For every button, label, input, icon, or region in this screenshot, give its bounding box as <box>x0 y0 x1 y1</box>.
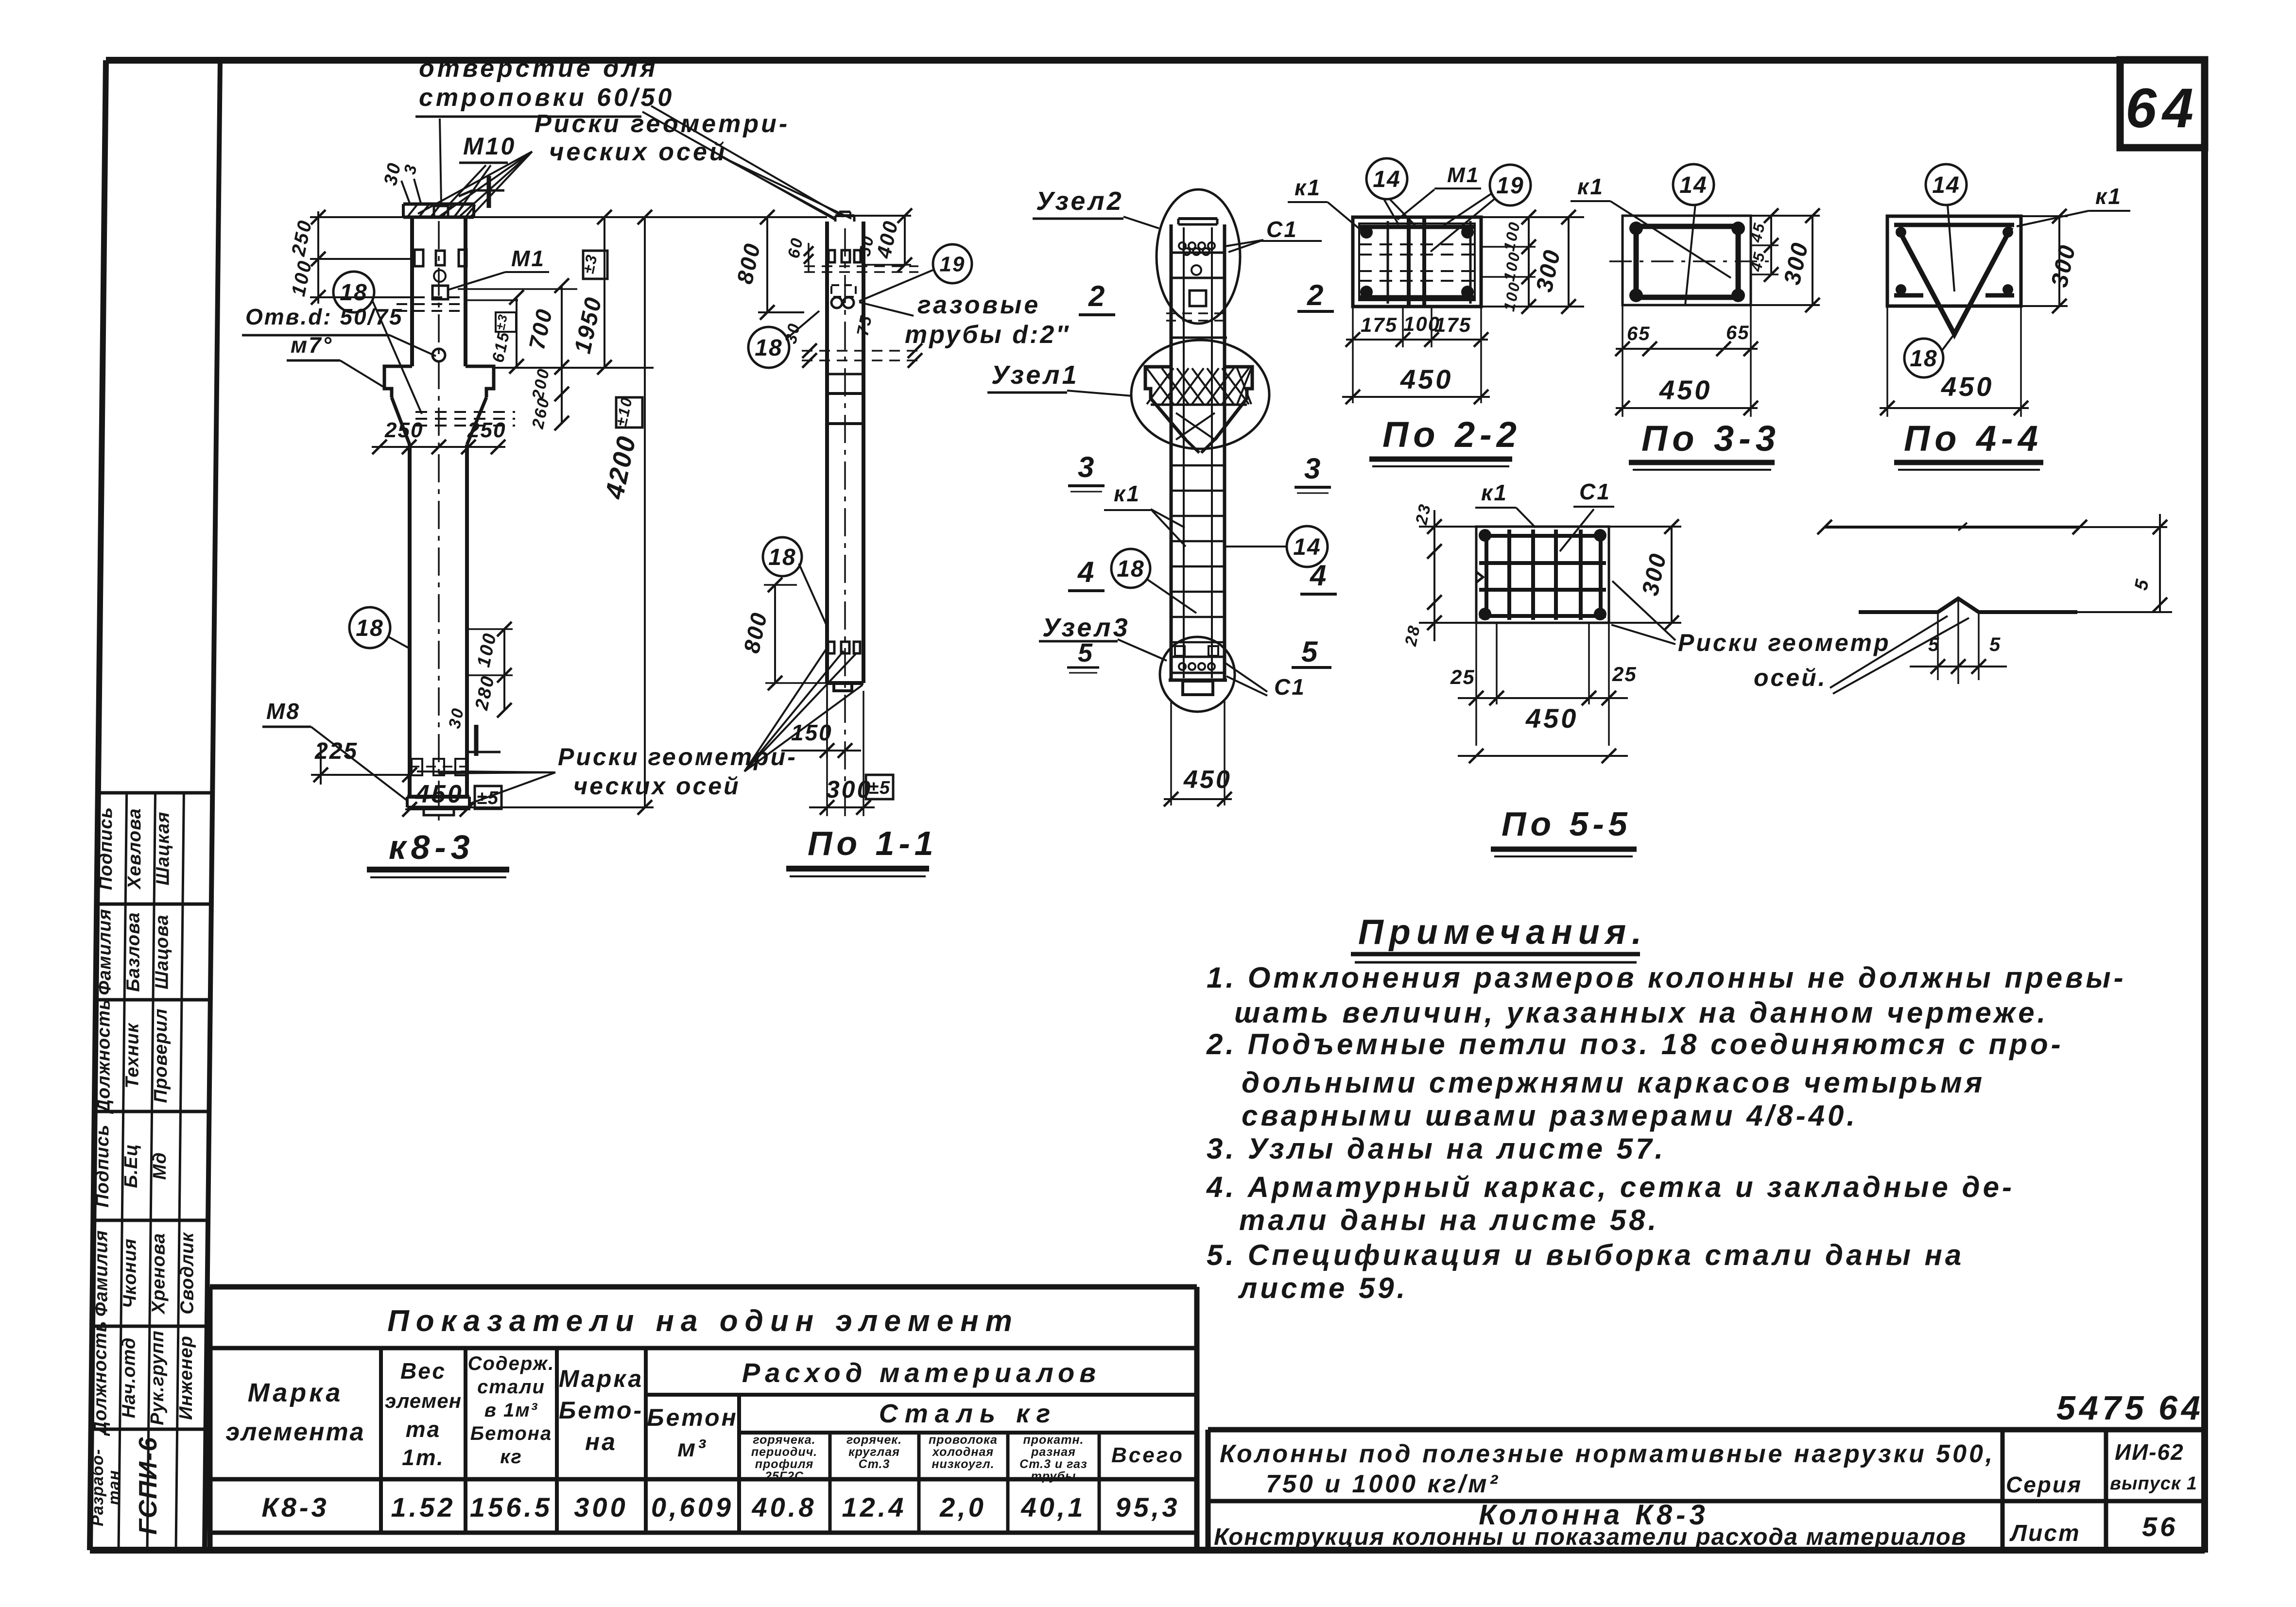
svg-text:Узел2: Узел2 <box>1036 187 1124 216</box>
svg-text:М1: М1 <box>1447 163 1480 187</box>
svg-text:Мд: Мд <box>150 1152 170 1180</box>
svg-text:65: 65 <box>1627 323 1651 344</box>
svg-text:холодная: холодная <box>932 1445 994 1459</box>
svg-text:3: 3 <box>1078 451 1094 483</box>
svg-text:С1: С1 <box>1579 479 1611 504</box>
svg-text:Проверил: Проверил <box>151 1009 171 1103</box>
svg-text:Конструкция колонны и показате: Конструкция колонны и показатели расхода… <box>1214 1524 1967 1550</box>
svg-text:к1: к1 <box>1114 481 1140 506</box>
svg-text:Ст.3 и газ: Ст.3 и газ <box>1019 1457 1088 1471</box>
svg-text:5: 5 <box>1989 634 2001 655</box>
svg-text:тали даны на листе 58.: тали даны на листе 58. <box>1239 1204 1659 1236</box>
svg-text:300: 300 <box>574 1492 628 1522</box>
svg-text:Хренова: Хренова <box>149 1233 169 1315</box>
svg-text:ческих осей: ческих осей <box>573 772 741 800</box>
svg-text:64: 64 <box>2158 1389 2204 1427</box>
svg-text:Колонны под полезные нормативн: Колонны под полезные нормативные нагрузк… <box>1220 1440 1995 1468</box>
svg-text:18: 18 <box>1117 556 1144 582</box>
svg-text:По 5-5: По 5-5 <box>1502 805 1632 843</box>
svg-text:±5: ±5 <box>868 778 891 798</box>
svg-text:круглая: круглая <box>848 1445 900 1459</box>
svg-text:Всего: Всего <box>1111 1443 1184 1467</box>
svg-text:ИИ-62: ИИ-62 <box>2115 1439 2184 1465</box>
svg-text:1. Отклонения размеров колонны: 1. Отклонения размеров колонны не должны… <box>1207 961 2126 994</box>
svg-text:М8: М8 <box>266 699 300 724</box>
svg-text:к1: к1 <box>1481 480 1508 505</box>
svg-text:2: 2 <box>1088 280 1105 312</box>
svg-text:2,0: 2,0 <box>939 1492 986 1522</box>
svg-text:Техник: Техник <box>122 1023 142 1089</box>
svg-text:4. Арматурный каркас, сетка и: 4. Арматурный каркас, сетка и закладные … <box>1206 1171 2015 1203</box>
svg-text:к1: к1 <box>1577 174 1604 199</box>
svg-text:175: 175 <box>1434 313 1471 336</box>
svg-text:95,3: 95,3 <box>1116 1492 1180 1522</box>
svg-text:Базлова: Базлова <box>123 912 144 992</box>
svg-text:Б.Ец: Б.Ец <box>121 1144 141 1188</box>
svg-text:450: 450 <box>1525 703 1578 734</box>
svg-text:элемента: элемента <box>225 1418 365 1446</box>
svg-text:175: 175 <box>1361 313 1398 336</box>
svg-text:осей.: осей. <box>1754 664 1827 691</box>
svg-text:12.4: 12.4 <box>842 1492 907 1522</box>
svg-text:Риски геометр: Риски геометр <box>1678 629 1891 656</box>
svg-text:шать величин, указанных на дан: шать величин, указанных на данном чертеж… <box>1234 996 2048 1029</box>
svg-text:сварными швами размерами 4/8-4: сварными швами размерами 4/8-40. <box>1242 1099 1858 1132</box>
svg-text:в 1м³: в 1м³ <box>484 1400 538 1421</box>
svg-text:прокатн.: прокатн. <box>1023 1433 1084 1447</box>
svg-text:м7°: м7° <box>291 332 333 358</box>
svg-text:По 4-4: По 4-4 <box>1904 418 2043 459</box>
svg-text:тан: тан <box>105 1470 123 1505</box>
svg-text:Хевлова: Хевлова <box>124 808 145 889</box>
svg-text:По 2-2: По 2-2 <box>1382 414 1521 455</box>
svg-text:Чкония: Чкония <box>120 1238 140 1308</box>
svg-text:1.52: 1.52 <box>391 1492 456 1522</box>
svg-text:0,609: 0,609 <box>651 1492 734 1522</box>
svg-text:Рук.групп: Рук.групп <box>147 1330 168 1425</box>
svg-text:19: 19 <box>940 252 966 276</box>
svg-text:40,1: 40,1 <box>1021 1492 1086 1522</box>
svg-text:450: 450 <box>1659 375 1712 405</box>
svg-text:156.5: 156.5 <box>470 1492 552 1522</box>
svg-text:5475: 5475 <box>2056 1389 2148 1427</box>
svg-text:строповки 60/50: строповки 60/50 <box>419 84 674 112</box>
svg-text:газовые: газовые <box>917 291 1040 319</box>
svg-text:По 3-3: По 3-3 <box>1641 418 1780 459</box>
svg-text:14: 14 <box>1373 167 1400 192</box>
svg-text:Разрабо-: Разрабо- <box>88 1449 107 1526</box>
svg-text:Фамилия: Фамилия <box>91 1230 112 1316</box>
svg-text:3: 3 <box>1304 452 1320 485</box>
svg-text:листе 59.: листе 59. <box>1238 1272 1408 1304</box>
svg-text:проволока: проволока <box>929 1433 998 1447</box>
svg-text:Сводлик: Сводлик <box>177 1232 197 1315</box>
svg-text:14: 14 <box>1293 534 1321 560</box>
svg-text:18: 18 <box>755 335 782 361</box>
svg-text:5: 5 <box>1078 638 1094 667</box>
svg-text:65: 65 <box>1726 322 1750 343</box>
svg-text:Риски геометри-: Риски геометри- <box>535 110 790 138</box>
svg-text:Подпись: Подпись <box>92 1124 113 1207</box>
svg-text:40.8: 40.8 <box>752 1492 817 1522</box>
svg-text:64: 64 <box>2125 77 2199 139</box>
svg-text:ГСПИ-6: ГСПИ-6 <box>134 1436 162 1535</box>
svg-text:450: 450 <box>1941 371 1994 402</box>
svg-text:25: 25 <box>1612 663 1637 685</box>
svg-text:Должность: Должность <box>93 999 114 1114</box>
svg-text:450: 450 <box>415 780 464 808</box>
svg-text:трубы: трубы <box>1031 1470 1076 1483</box>
svg-text:Марка: Марка <box>248 1378 344 1407</box>
svg-text:14: 14 <box>1679 172 1707 198</box>
svg-text:М1: М1 <box>511 246 545 271</box>
svg-text:на: на <box>585 1428 617 1455</box>
svg-text:18: 18 <box>340 280 367 306</box>
svg-text:периодич.: периодич. <box>751 1445 817 1459</box>
svg-text:450: 450 <box>1183 766 1232 794</box>
svg-text:19: 19 <box>1496 173 1524 199</box>
svg-text:2: 2 <box>1307 279 1323 311</box>
svg-text:Должность: Должность <box>90 1321 110 1436</box>
svg-text:1т.: 1т. <box>402 1445 445 1470</box>
svg-text:56: 56 <box>2142 1511 2178 1542</box>
svg-text:отверстие для: отверстие для <box>419 54 658 83</box>
svg-text:450: 450 <box>1400 364 1453 394</box>
svg-text:18: 18 <box>1910 346 1937 372</box>
svg-text:250: 250 <box>467 418 506 442</box>
svg-text:Узел1: Узел1 <box>991 360 1079 390</box>
svg-text:750 и 1000 кг/м²: 750 и 1000 кг/м² <box>1266 1470 1500 1498</box>
svg-text:5: 5 <box>1301 635 1318 668</box>
svg-text:18: 18 <box>768 545 796 570</box>
svg-text:250: 250 <box>384 418 423 442</box>
svg-text:стали: стали <box>477 1376 545 1398</box>
svg-text:Шацкая: Шацкая <box>153 811 173 885</box>
svg-text:С1: С1 <box>1266 217 1298 242</box>
svg-text:14: 14 <box>1932 172 1960 198</box>
svg-text:25Г2С: 25Г2С <box>764 1470 804 1483</box>
svg-text:Примечания.: Примечания. <box>1358 913 1647 952</box>
svg-text:Ст.3: Ст.3 <box>859 1457 890 1471</box>
svg-text:Бето-: Бето- <box>559 1397 643 1424</box>
svg-text:2. Подъемные петли поз. 18 сое: 2. Подъемные петли поз. 18 соединяются с… <box>1206 1028 2064 1060</box>
svg-text:к1: к1 <box>1295 175 1321 200</box>
svg-text:К8-3: К8-3 <box>261 1492 329 1522</box>
svg-text:18: 18 <box>356 615 383 641</box>
svg-text:±5: ±5 <box>477 788 499 808</box>
svg-text:4: 4 <box>1310 559 1326 592</box>
svg-text:к8-3: к8-3 <box>389 828 475 866</box>
svg-text:Вес: Вес <box>400 1358 446 1384</box>
svg-text:3. Узлы даны на листе 57.: 3. Узлы даны на листе 57. <box>1207 1132 1666 1165</box>
svg-text:профиля: профиля <box>755 1457 813 1471</box>
svg-text:дольными стержнями каркасов че: дольными стержнями каркасов четырьмя <box>1242 1066 1985 1099</box>
svg-text:Фамилия: Фамилия <box>95 908 115 995</box>
svg-text:М10: М10 <box>463 133 516 160</box>
svg-text:5. Спецификация и выборка стал: 5. Спецификация и выборка стали даны на <box>1207 1239 1964 1271</box>
svg-text:горячек.: горячек. <box>846 1433 902 1447</box>
svg-text:25: 25 <box>1450 666 1475 688</box>
svg-text:та: та <box>406 1417 441 1442</box>
svg-text:Расход материалов: Расход материалов <box>742 1357 1101 1388</box>
svg-text:к1: к1 <box>2095 184 2122 209</box>
svg-text:трубы d:2″: трубы d:2″ <box>905 321 1070 349</box>
svg-text:кг: кг <box>500 1446 522 1468</box>
svg-text:Шацова: Шацова <box>152 914 172 989</box>
svg-text:Подпись: Подпись <box>96 807 116 890</box>
svg-text:Серия: Серия <box>2006 1472 2082 1497</box>
svg-text:Содерж.: Содерж. <box>468 1353 555 1374</box>
svg-text:разная: разная <box>1031 1445 1076 1459</box>
svg-text:Узел3: Узел3 <box>1042 613 1130 642</box>
svg-text:Инженер: Инженер <box>176 1335 196 1420</box>
svg-text:Показатели на один элемент: Показатели на один элемент <box>387 1304 1019 1338</box>
svg-text:Бетона: Бетона <box>470 1423 552 1444</box>
svg-text:Бетон: Бетон <box>647 1404 738 1431</box>
svg-text:5: 5 <box>1928 634 1940 655</box>
svg-text:горячека.: горячека. <box>753 1433 815 1447</box>
svg-text:низкоугл.: низкоугл. <box>932 1457 994 1471</box>
svg-text:4: 4 <box>1077 556 1094 588</box>
svg-text:м³: м³ <box>677 1435 708 1462</box>
svg-text:Лист: Лист <box>2009 1521 2081 1546</box>
svg-text:По 1-1: По 1-1 <box>808 824 938 862</box>
svg-text:С1: С1 <box>1274 674 1306 700</box>
svg-text:элемен: элемен <box>385 1389 462 1412</box>
svg-text:Марка: Марка <box>559 1365 643 1392</box>
svg-text:Нач.отд: Нач.отд <box>119 1337 139 1419</box>
svg-text:ческих осей: ческих осей <box>549 138 727 166</box>
svg-text:выпуск 1: выпуск 1 <box>2110 1473 2197 1494</box>
svg-text:Сталь кг: Сталь кг <box>879 1399 1057 1428</box>
